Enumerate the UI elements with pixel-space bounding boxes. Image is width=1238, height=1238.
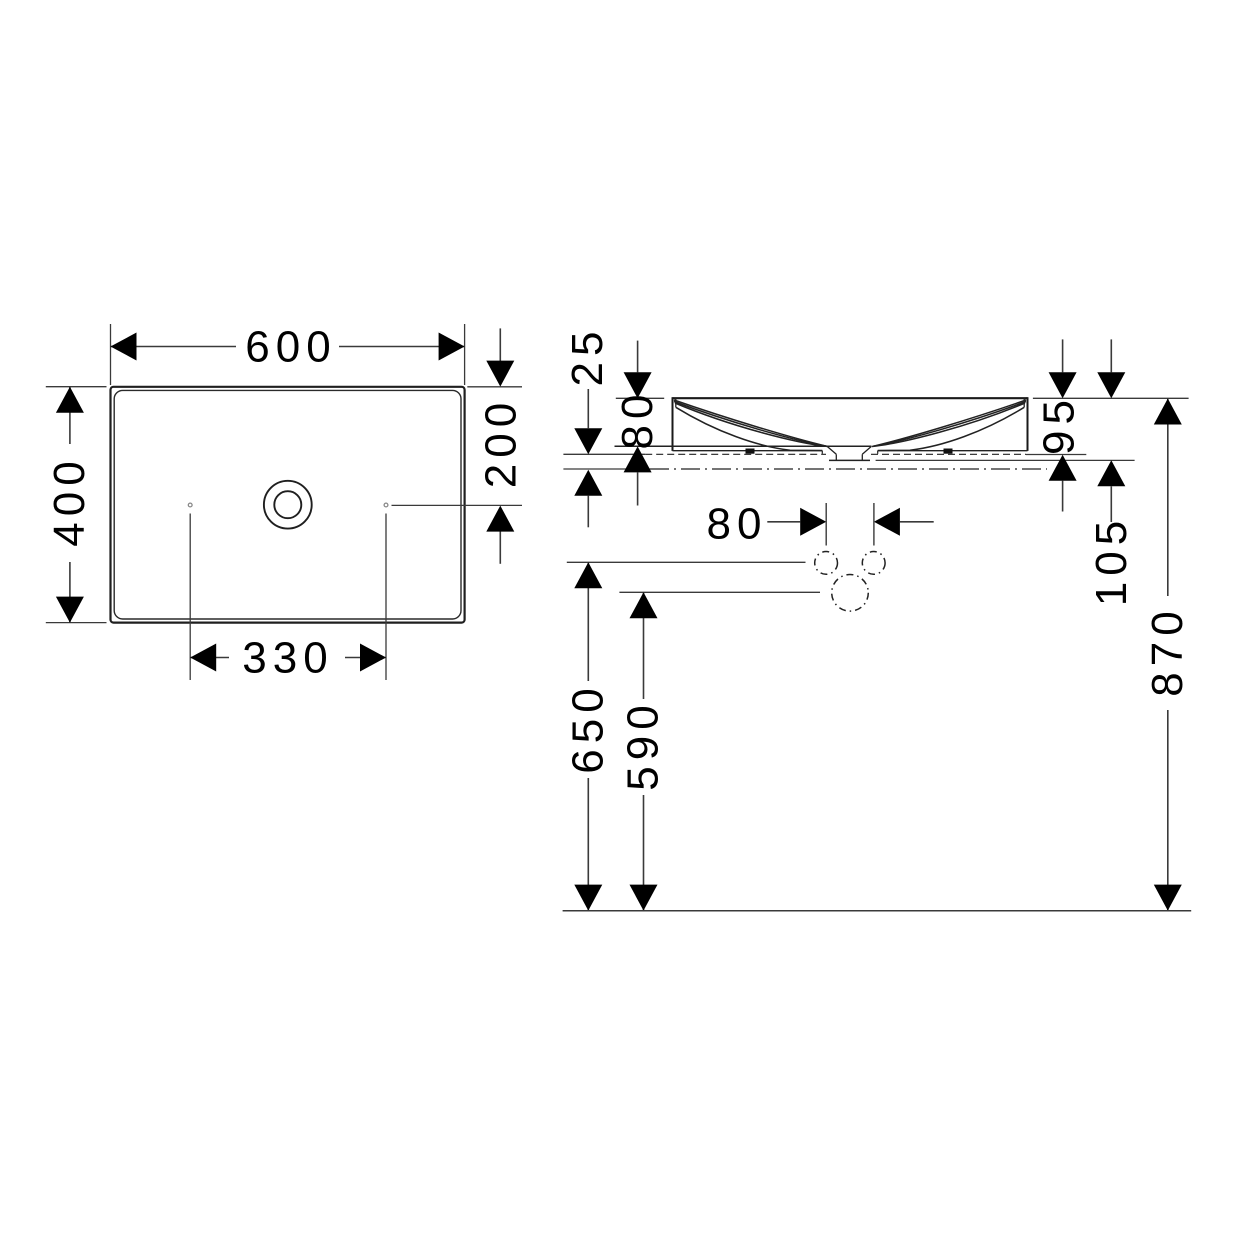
hidden counter line dashed under basin [645, 453, 826, 455]
dim 330 arrows [190, 644, 216, 672]
dim 650 arrows [574, 562, 602, 588]
dim 650 line [587, 562, 589, 910]
mounting clip left [746, 449, 755, 454]
leader line below right hole [385, 514, 387, 681]
bowl sweep curves left bundle [674, 400, 827, 446]
leader line right of right hole [392, 504, 523, 506]
svg-text:25: 25 [563, 326, 612, 387]
dim 400 extension lines [46, 386, 107, 388]
dim 330 line [190, 657, 386, 659]
spout hole circle (front) [832, 575, 869, 612]
basin outer rectangle (plan) [111, 387, 465, 623]
basin base line right [878, 450, 1028, 452]
dim 870 line [1167, 399, 1169, 911]
drain pipe right wall [861, 454, 863, 460]
rim corner tick left [675, 398, 677, 407]
dim 95 tails [1062, 339, 1064, 372]
svg-text:80: 80 [707, 500, 768, 549]
hidden counter line (solid left part) [563, 453, 645, 455]
dim 590 line [643, 592, 645, 910]
svg-text:600: 600 [245, 323, 336, 372]
svg-text:400: 400 [45, 455, 94, 546]
dim 25 tails [587, 389, 589, 428]
basin right edge [1027, 397, 1029, 451]
svg-text:590: 590 [619, 699, 668, 790]
dim 80 vertical tails [637, 341, 639, 373]
svg-text:105: 105 [1087, 515, 1136, 606]
svg-text:650: 650 [564, 682, 613, 773]
leader line below left hole [189, 514, 191, 681]
dim 870 text [1149, 596, 1187, 710]
dim 80 vertical text [620, 401, 656, 445]
counter hole edge left [821, 451, 823, 454]
basin base line left [673, 450, 823, 452]
105 reference extension line [876, 459, 1135, 461]
dim 95 arrows [1049, 372, 1077, 398]
dim 80 horizontal arrows [800, 508, 826, 536]
dim 400 line [69, 387, 71, 623]
bowl near silhouette curve left [676, 407, 823, 450]
floor line [563, 910, 1192, 912]
basin inner rim rectangle (plan) [114, 390, 461, 619]
rim corner tick right [1023, 398, 1025, 407]
dim 400 text [51, 444, 89, 562]
dim 200 arrows [486, 361, 514, 387]
dim 650 reference line [567, 561, 806, 563]
drain pipe left wall [835, 454, 837, 460]
dim 105 tails [1110, 339, 1112, 372]
drain inner circle (plan) [274, 491, 301, 518]
faucet hole left (plan) [188, 503, 192, 507]
basin top extension left [616, 397, 664, 399]
drain flange bottom [829, 459, 870, 461]
dim 105 arrows [1097, 372, 1125, 398]
dim 600 extension lines [110, 324, 112, 385]
svg-text:80: 80 [613, 389, 662, 450]
dim 80 vertical arrows [624, 372, 652, 398]
basin top extension right [1033, 397, 1189, 399]
dim 600 line [111, 346, 465, 348]
dim 80 horizontal ticks [825, 503, 827, 546]
dim 590 reference line [619, 591, 820, 593]
counter hole edge right [877, 451, 879, 454]
faucet hole right (plan) [384, 503, 388, 507]
mounting clip right [944, 449, 953, 454]
drain outer circle (plan) [264, 481, 312, 529]
dim 590 arrows [630, 592, 658, 618]
dim 600 arrows [111, 333, 137, 361]
drain funnel right slant [862, 446, 871, 454]
centre dash-dot line [650, 468, 1047, 470]
dim 200 extension line top [467, 386, 522, 388]
faucet hole circle right (front) [862, 552, 885, 575]
dim 200 tails [499, 328, 501, 362]
bowl near silhouette curve right [878, 407, 1024, 450]
dim 590 text [625, 699, 662, 795]
dim 600 text [236, 327, 339, 367]
95 reference extension (solid right part) [1026, 454, 1086, 456]
svg-text:95: 95 [1035, 394, 1084, 455]
basin rim top edge [673, 397, 1028, 399]
drain funnel left slant [827, 446, 836, 454]
svg-text:200: 200 [476, 397, 525, 488]
dim 25 arrows [574, 428, 602, 454]
dim 330 text [229, 638, 345, 678]
dim 80 horizontal tails [767, 521, 800, 523]
svg-text:330: 330 [242, 634, 333, 683]
bowl sweep curves right bundle [873, 400, 1026, 446]
basin left edge [672, 397, 674, 451]
dim 650 text [570, 681, 607, 778]
bowl flat bottom + 80 reference extension line [615, 445, 872, 447]
svg-text:870: 870 [1143, 605, 1192, 696]
faucet hole circle left (front) [815, 552, 838, 575]
dim 870 arrows [1154, 399, 1182, 425]
25 lower reference line (solid left) [563, 468, 650, 470]
dim 400 arrows [56, 387, 84, 413]
